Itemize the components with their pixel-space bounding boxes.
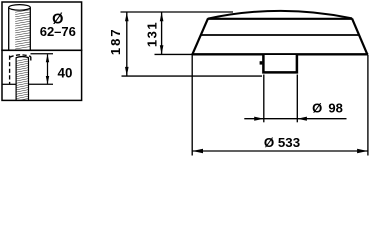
detail box 1 frame (pole diameter) (2, 2, 82, 50)
diameter 98 extension lines (263, 75, 265, 123)
socket rim line (2, 83, 53, 85)
spigot clamp tick (260, 61, 263, 64)
dimension 40 arrow line (47, 54, 49, 84)
diameter 533 arrowheads (192, 149, 203, 154)
pole cylinder body (9, 5, 31, 50)
luminaire left slant side (192, 18, 208, 54)
dimension 40 extension lines (31, 53, 54, 55)
threaded spigot body (16, 57, 28, 101)
diameter 533 extension lines (191, 55, 193, 156)
diameter 98 arrowheads (254, 117, 264, 121)
svg-text:Ø 533: Ø 533 (264, 135, 300, 150)
luminaire right slant side (352, 18, 367, 54)
dimension 131 line (161, 12, 163, 54)
svg-text:131: 131 (145, 21, 160, 47)
detail box 2 frame (insertion depth) (2, 50, 82, 100)
svg-text:Ø 98: Ø 98 (312, 101, 343, 116)
dimension 131 arrowheads (160, 12, 164, 21)
svg-text:62–76: 62–76 (40, 24, 76, 39)
hidden socket tube (dashed) (10, 55, 31, 84)
svg-text:40: 40 (58, 66, 73, 81)
spigot thread hatching (17, 59, 29, 101)
luminaire dome arc (208, 11, 352, 19)
dimension 40 arrowheads (46, 54, 49, 62)
dimension 187 line (126, 12, 128, 76)
luminaire canopy top edge (208, 18, 353, 20)
dimension 187 arrowheads (125, 12, 129, 21)
top extension line (apex level) (121, 11, 234, 13)
diameter 98 dimension line (244, 118, 346, 120)
dimension 131 bottom extension line (155, 53, 193, 55)
luminaire seam line (201, 34, 359, 36)
dimension 187 bottom extension line (122, 75, 263, 77)
spigot housing under luminaire (263, 55, 297, 72)
svg-text:187: 187 (108, 27, 123, 55)
diameter 533 dimension line (193, 150, 368, 152)
luminaire bottom rim (192, 53, 369, 55)
pole thread hatching (15, 10, 30, 49)
